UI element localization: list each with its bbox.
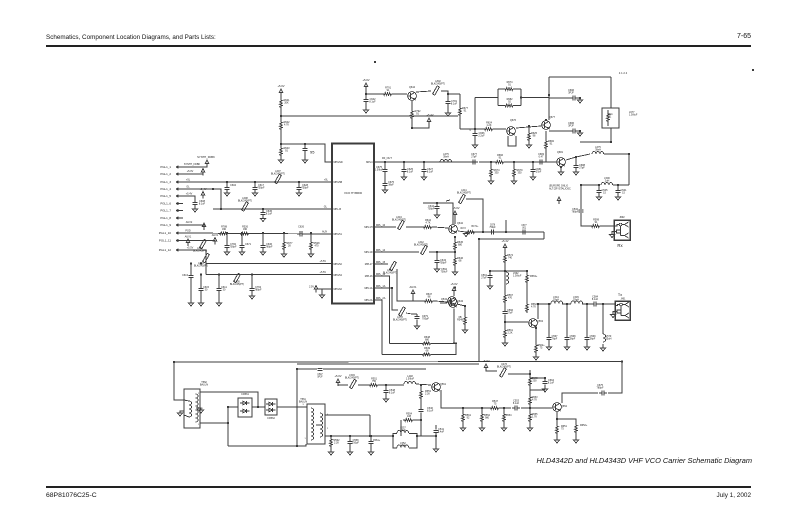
svg-text:1.5/6uF: 1.5/6uF	[513, 275, 522, 278]
svg-text:27pF: 27pF	[536, 171, 542, 174]
svg-text:PGL1_6: PGL1_6	[160, 202, 171, 206]
svg-text:Q563: Q563	[537, 320, 544, 323]
svg-text:1.5/6uF: 1.5/6uF	[629, 114, 638, 117]
svg-text:750pF: 750pF	[352, 442, 359, 445]
svg-text:BALUN: BALUN	[200, 384, 208, 387]
svg-text:CR562: CR562	[267, 417, 275, 420]
svg-text:780pF: 780pF	[597, 387, 604, 390]
svg-text:BLK/245(PT): BLK/245(PT)	[271, 173, 285, 176]
svg-text:BLK/245(PT): BLK/245(PT)	[414, 244, 428, 247]
svg-text:2.2K: 2.2K	[507, 332, 512, 335]
svg-text:MPG5B: MPG5B	[334, 181, 343, 184]
svg-text:PGL1_11: PGL1_11	[159, 239, 171, 243]
svg-text:+5.5V: +5.5V	[320, 260, 327, 263]
svg-text:8.1uF: 8.1uF	[199, 203, 206, 206]
svg-text:+5.0V: +5.0V	[452, 206, 459, 210]
svg-text:SYNTH_FDBK: SYNTH_FDBK	[197, 155, 215, 159]
svg-text:95: 95	[310, 150, 315, 155]
svg-text:1.2K: 1.2K	[486, 124, 491, 127]
svg-text:2.2uF: 2.2uF	[478, 135, 485, 138]
svg-text:R654: R654	[506, 414, 513, 417]
svg-text:8.1uF: 8.1uF	[451, 103, 458, 106]
svg-text:Q677: Q677	[549, 116, 556, 119]
svg-text:MPG51: MPG51	[334, 233, 343, 236]
svg-text:8.1uF: 8.1uF	[427, 171, 434, 174]
svg-text:750pF: 750pF	[489, 227, 496, 229]
svg-text:980: 980	[485, 417, 490, 420]
svg-text:PGL1_7: PGL1_7	[160, 209, 171, 213]
svg-text:AUX2: AUX2	[186, 221, 193, 224]
svg-text:8.1uF: 8.1uF	[369, 101, 376, 104]
svg-text:PGL1_12: PGL1_12	[159, 248, 172, 252]
svg-text:BLK/245(PT): BLK/245(PT)	[393, 319, 407, 322]
svg-text:4.7K: 4.7K	[532, 399, 537, 402]
svg-text:1.5/6uF: 1.5/6uF	[375, 169, 384, 172]
svg-text:MPL16: MPL16	[365, 275, 373, 278]
svg-text:3PJF: 3PJF	[568, 125, 574, 128]
svg-text:740: 740	[508, 257, 513, 260]
svg-text:6.4uF: 6.4uF	[438, 431, 445, 434]
svg-text:8.1uF: 8.1uF	[266, 213, 273, 216]
svg-text:27uF: 27uF	[481, 277, 487, 280]
svg-text:700pF: 700pF	[230, 246, 237, 249]
svg-text:BC71+: BC71+	[472, 226, 480, 228]
svg-text:8.1uF: 8.1uF	[513, 402, 520, 405]
svg-text:CR561: CR561	[241, 393, 249, 396]
svg-text:4 1 2 4: 4 1 2 4	[619, 71, 628, 75]
svg-text:700pF: 700pF	[422, 318, 429, 321]
svg-text:C613: C613	[182, 274, 189, 277]
svg-text:36pF: 36pF	[590, 338, 596, 341]
svg-text:700pF: 700pF	[428, 208, 435, 211]
svg-text:+5_4V: +5_4V	[199, 188, 207, 191]
svg-text:330: 330	[243, 228, 248, 231]
svg-text:BLK/245(PT): BLK/245(PT)	[497, 366, 511, 369]
svg-text:MPL_14: MPL_14	[376, 249, 386, 252]
svg-text:AUX1: AUX1	[212, 234, 219, 237]
svg-text:PGL1_5: PGL1_5	[160, 194, 171, 198]
svg-text:+5.4V: +5.4V	[186, 193, 193, 196]
svg-text:53nH: 53nH	[573, 299, 579, 302]
svg-text:PGL1_4: PGL1_4	[160, 187, 171, 191]
svg-text:C604: C604	[230, 184, 237, 187]
svg-text:76pF: 76pF	[552, 338, 558, 341]
svg-text:20K: 20K	[284, 102, 289, 105]
svg-text:680: 680	[425, 338, 430, 341]
svg-text:PGL1_10: PGL1_10	[159, 231, 172, 235]
svg-text:+5.0V: +5.0V	[334, 374, 341, 378]
svg-text:780pF: 780pF	[572, 211, 579, 214]
svg-text:750: 750	[372, 380, 377, 383]
svg-text:760pF: 760pF	[266, 246, 273, 249]
svg-text:MPL-B: MPL-B	[334, 208, 342, 211]
svg-text:8.1uF: 8.1uF	[407, 171, 414, 174]
svg-text:2.2K: 2.2K	[425, 393, 430, 396]
svg-text:C561+: C561+	[373, 439, 381, 442]
svg-text:330: 330	[517, 172, 522, 175]
svg-text:25uH: 25uH	[606, 338, 612, 341]
svg-text:39nH: 39nH	[595, 149, 601, 152]
svg-text:C671: C671	[245, 243, 252, 246]
svg-text:4.7K: 4.7K	[425, 222, 430, 225]
svg-text:3CY2: 3CY2	[460, 228, 466, 230]
svg-text:Tx: Tx	[618, 293, 622, 297]
svg-text:BLK/245(PT): BLK/245(PT)	[194, 265, 208, 268]
svg-text:2.2K: 2.2K	[334, 442, 339, 445]
svg-text:108: 108	[407, 415, 412, 418]
svg-text:PGL1_1: PGL1_1	[160, 165, 171, 169]
svg-text:Q561: Q561	[440, 383, 447, 386]
svg-text:27pF: 27pF	[471, 156, 477, 159]
svg-text:MPL1H: MPL1H	[364, 226, 372, 229]
svg-text:700uF: 700uF	[441, 271, 448, 274]
svg-text:8.1uF: 8.1uF	[548, 382, 555, 385]
svg-text:R563+: R563+	[530, 275, 538, 278]
svg-text:BLK/245(PT): BLK/245(PT)	[392, 219, 406, 222]
svg-text:1.7K: 1.7K	[532, 416, 537, 419]
svg-text:700pF: 700pF	[440, 262, 447, 265]
svg-text:BLK/245(PT): BLK/245(PT)	[238, 200, 252, 203]
svg-text:Q642: Q642	[457, 222, 464, 225]
svg-text:750pF: 750pF	[258, 187, 265, 190]
svg-text:8.1uF: 8.1uF	[389, 392, 396, 395]
svg-text:Q643: Q643	[457, 300, 464, 303]
svg-text:3PJF: 3PJF	[568, 92, 574, 95]
svg-text:BLK/245(PT): BLK/245(PT)	[457, 192, 471, 195]
svg-text:PGL1_8: PGL1_8	[160, 216, 171, 220]
svg-text:5PJF: 5PJF	[317, 376, 323, 378]
svg-text:+5.5V: +5.5V	[187, 247, 194, 250]
svg-text:+5.0V: +5.0V	[362, 78, 369, 82]
svg-text:BLK/245(PT): BLK/245(PT)	[230, 283, 244, 286]
svg-text:MPL_10: MPL_10	[376, 224, 386, 227]
svg-text:MPGND: MPGND	[334, 161, 343, 164]
svg-text:200: 200	[532, 380, 537, 383]
svg-text:4.7K: 4.7K	[531, 306, 536, 309]
svg-text:+5.0V: +5.0V	[187, 170, 194, 173]
svg-text:MPG62: MPG62	[334, 288, 343, 291]
svg-text:BALUN: BALUN	[299, 401, 307, 404]
svg-text:R548: R548	[457, 319, 464, 322]
svg-text:MPL4: MPL4	[366, 161, 373, 164]
svg-text:Q676: Q676	[510, 119, 517, 122]
svg-text:+5L: +5L	[324, 179, 329, 182]
svg-text:470: 470	[314, 245, 319, 248]
svg-text:27uF: 27uF	[507, 312, 513, 315]
svg-text:MPG52: MPG52	[334, 263, 343, 266]
svg-text:PGL1_9: PGL1_9	[160, 223, 171, 227]
svg-text:R652+: R652+	[580, 424, 588, 427]
svg-text:780pF: 780pF	[255, 289, 262, 292]
svg-text:53nH: 53nH	[553, 299, 559, 302]
svg-text:VCO HYBRID: VCO HYBRID	[344, 191, 362, 195]
svg-text:27uF: 27uF	[400, 445, 406, 448]
svg-text:39nH: 39nH	[443, 156, 449, 159]
svg-text:MPL17: MPL17	[365, 263, 373, 266]
svg-text:+5.4V: +5.4V	[426, 113, 433, 117]
svg-text:+5.0V: +5.0V	[450, 282, 457, 286]
svg-text:J6#2: J6#2	[619, 216, 625, 219]
svg-text:.001: .001	[522, 227, 527, 229]
svg-text:MPL1D: MPL1D	[364, 251, 372, 254]
svg-text:PGL1_2: PGL1_2	[160, 172, 171, 176]
svg-text:AUX: AUX	[322, 231, 327, 234]
svg-text:BLK/245(PT): BLK/245(PT)	[431, 83, 445, 86]
svg-text:MPG54: MPG54	[334, 274, 343, 277]
svg-text:36pF: 36pF	[570, 338, 576, 341]
svg-text:2K: 2K	[288, 245, 291, 248]
svg-text:Q681: Q681	[557, 151, 564, 154]
svg-text:750pF: 750pF	[302, 187, 309, 190]
svg-text:330: 330	[494, 172, 499, 175]
svg-text:MPL2A: MPL2A	[364, 299, 372, 302]
svg-text:MPL_2A: MPL_2A	[376, 297, 386, 300]
svg-text:BLK/245(PT): BLK/245(PT)	[383, 272, 397, 275]
svg-text:2.5V: 2.5V	[309, 286, 314, 289]
svg-text:ALT.CRYSTAL/OSC: ALT.CRYSTAL/OSC	[549, 188, 571, 191]
svg-text:8.1uF: 8.1uF	[592, 298, 599, 301]
svg-text:680: 680	[458, 244, 463, 247]
svg-text:AUX1: AUX1	[185, 236, 192, 239]
svg-text:MPL_15: MPL_15	[376, 261, 386, 264]
svg-text:MPL1A: MPL1A	[364, 287, 372, 290]
svg-text:MPL_1A: MPL_1A	[376, 285, 386, 288]
svg-text:Q644: Q644	[409, 86, 416, 89]
svg-text:+5.0V: +5.0V	[277, 84, 284, 88]
svg-text:0.47: 0.47	[539, 156, 544, 159]
svg-text:8.1uF: 8.1uF	[427, 410, 434, 413]
svg-text:+5L: +5L	[186, 179, 191, 182]
svg-text:BLK/245(PT): BLK/245(PT)	[345, 377, 359, 380]
svg-text:470: 470	[508, 297, 513, 300]
svg-text:Q543: Q543	[441, 298, 448, 301]
svg-text:4.7K: 4.7K	[284, 124, 289, 127]
svg-text:J401: J401	[621, 299, 627, 301]
svg-text:+5.5V: +5.5V	[320, 271, 327, 274]
svg-text:AUX1: AUX1	[409, 285, 417, 289]
svg-text:Q652: Q652	[561, 405, 568, 408]
svg-text:+5.4V: +5.4V	[501, 239, 508, 243]
svg-text:PGD: PGD	[185, 230, 191, 233]
svg-text:38uF: 38uF	[388, 184, 394, 187]
svg-text:+5.0V: +5.0V	[482, 359, 489, 363]
svg-text:BLK/245(PT): BLK/245(PT)	[193, 250, 207, 253]
svg-text:PGL1_3: PGL1_3	[160, 180, 171, 184]
svg-text:Rx: Rx	[617, 243, 623, 248]
svg-text:2uH: 2uH	[605, 180, 610, 183]
svg-text:1.5/6uF: 1.5/6uF	[406, 378, 415, 381]
svg-text:27uF: 27uF	[400, 429, 406, 432]
svg-text:RF_OUT: RF_OUT	[382, 157, 392, 160]
svg-text:SYNTH_FDBK: SYNTH_FDBK	[184, 163, 201, 166]
svg-text:27pF: 27pF	[579, 167, 585, 170]
svg-text:C626: C626	[298, 226, 305, 229]
svg-text:330: 330	[222, 228, 227, 231]
